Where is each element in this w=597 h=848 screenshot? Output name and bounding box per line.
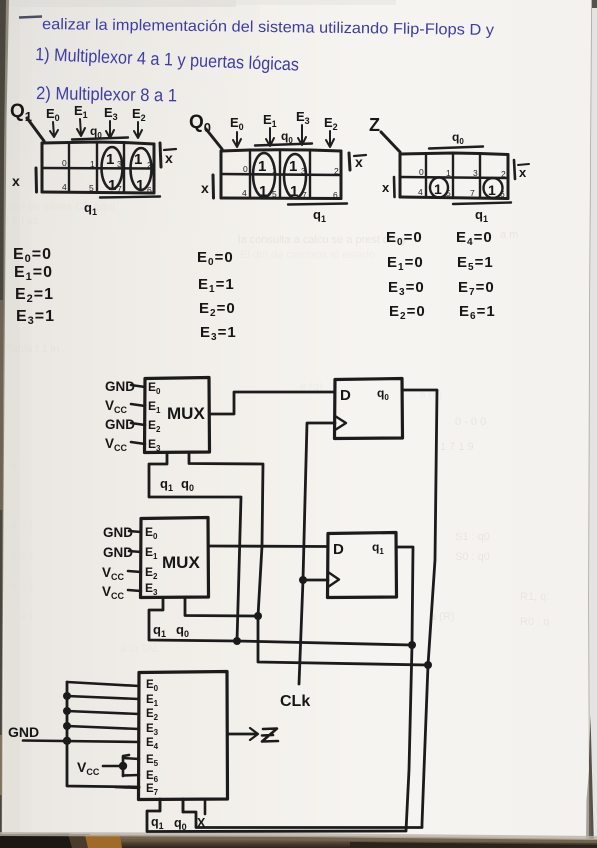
- wire E5 stub: [123, 758, 139, 759]
- E3 arrow: [104, 105, 118, 122]
- wire U2 output to FF2 D: [209, 545, 329, 548]
- svg-text:E2=1: E2=1: [15, 286, 54, 305]
- wire GND to U2.E1: [129, 551, 141, 552]
- svg-text:R0 : q: R0 : q: [520, 616, 549, 628]
- q1 bracket bottom: [100, 197, 160, 198]
- wire q0 horizontal to MUX selects: [189, 452, 428, 665]
- q0 bracket top: [452, 130, 464, 146]
- wire FF2 q1 output feedback: [147, 547, 413, 832]
- wire FF1 q0 output feedback (right vertical): [183, 390, 437, 828]
- wire U3 select q0 stub: [182, 800, 185, 813]
- q1 bracket bottom: [288, 204, 347, 205]
- arrowhead Z: [250, 728, 258, 740]
- E1 arrow: [263, 112, 277, 129]
- svg-text:7: 7: [470, 188, 475, 198]
- svg-text:E1=0: E1=0: [14, 264, 53, 283]
- svg-text:1: 1: [108, 177, 116, 194]
- GND label U2.E1: [103, 545, 133, 560]
- svg-text:x: x: [165, 150, 173, 166]
- svg-text:E2=0: E2=0: [199, 300, 236, 319]
- wire U3 select q1 stub: [159, 800, 162, 812]
- svg-text:4: 4: [418, 187, 423, 197]
- svg-text:GND: GND: [105, 417, 135, 432]
- svg-text:Tabla t 1 in: Tabla t 1 in: [6, 343, 59, 355]
- svg-text:E6=1: E6=1: [459, 303, 496, 322]
- wire U3 select X stub: [204, 800, 207, 815]
- mux U3 (8:1): [139, 672, 228, 800]
- Vcc label U2.E2: [102, 565, 125, 582]
- crossed-out R dash: [19, 17, 42, 18]
- E2 arrow: [132, 106, 146, 123]
- left dark photo edge: [0, 0, 9, 848]
- wire GND to U1.E2: [131, 423, 145, 425]
- svg-text:x: x: [519, 165, 527, 180]
- grouping oval cells 1-5: [253, 153, 275, 197]
- wire Vcc to U2.E2: [128, 571, 141, 572]
- grouping oval cells 3-7: [284, 154, 306, 198]
- svg-text:x: x: [201, 180, 209, 196]
- svg-text:GND: GND: [105, 379, 135, 394]
- flip-flop FF1: [335, 379, 403, 439]
- svg-text:E1=0: E1=0: [387, 254, 424, 273]
- svg-text:0: 0: [419, 167, 424, 177]
- wire Vcc to U1.E3: [131, 442, 145, 444]
- svg-text:E1=1: E1=1: [198, 276, 235, 295]
- svg-text:2: 2: [501, 169, 506, 179]
- mux U2 (4:1 bottom): [141, 518, 209, 598]
- q1 bracket bottom: [453, 203, 511, 205]
- svg-text:5: 5: [89, 183, 94, 193]
- junction bus E3: [63, 722, 71, 730]
- wire U1 output to FF1 D: [210, 392, 336, 414]
- wire Z leader: [381, 132, 400, 152]
- E0 arrow: [230, 115, 244, 132]
- svg-text:E2=0: E2=0: [389, 303, 426, 322]
- wire E6 stub: [123, 774, 139, 777]
- junction q1 net: [408, 641, 416, 649]
- Vcc label U1.E1: [105, 398, 128, 415]
- svg-text:4 9 1: 4 9 1: [10, 551, 34, 563]
- svg-text:x: x: [12, 173, 20, 189]
- x-bar label right: [514, 160, 515, 179]
- junction q1 select: [233, 637, 241, 645]
- cell numbers: [62, 158, 152, 195]
- left margin shadow band: [4, 0, 20, 838]
- svg-text:E3=1: E3=1: [200, 324, 237, 343]
- svg-text:E4=0: E4=0: [456, 229, 493, 248]
- svg-text:1: 1: [289, 158, 297, 175]
- cell numbers: [418, 167, 506, 199]
- node Z label: [369, 115, 380, 135]
- right paper edge line: [589, 0, 592, 848]
- grouping circle cell 6: [484, 178, 503, 198]
- svg-text:1: 1: [136, 177, 144, 194]
- svg-text:E3=1: E3=1: [16, 308, 55, 327]
- flip-flop FF2: [328, 533, 397, 598]
- K-map Z: [369, 115, 529, 224]
- junction Vcc tie: [119, 762, 127, 770]
- svg-text:a la TAL: a la TAL: [120, 643, 160, 655]
- wire Vcc to E5/E6 tie: [103, 765, 122, 768]
- svg-text:0: 0: [243, 164, 248, 174]
- ones in cells 1,5: [258, 158, 298, 200]
- svg-text:a m: a m: [500, 229, 518, 241]
- wire GND bus vertical: [67, 682, 139, 787]
- K-map Q1 grid: [42, 142, 154, 144]
- svg-text:2: 2: [334, 166, 339, 176]
- wire MUX2 S0 stub: [185, 597, 258, 616]
- E3 arrow: [296, 109, 310, 126]
- svg-text:E7=0: E7=0: [458, 279, 495, 298]
- grouping oval cells 3-7: [102, 147, 123, 189]
- E1 arrow: [74, 103, 88, 120]
- E0 arrow: [46, 106, 60, 123]
- svg-text:1: 1: [446, 168, 451, 178]
- svg-text:X: X: [197, 816, 206, 830]
- junction bus E4/GND: [63, 737, 71, 745]
- svg-text:4 9: 4 9: [10, 461, 25, 473]
- svg-text:1 9 1: 1 9 1: [10, 611, 34, 623]
- svg-text:a (R): a (R): [430, 611, 454, 623]
- wire clock bus: [299, 423, 335, 684]
- svg-text:3: 3: [473, 168, 478, 178]
- svg-text:D: D: [333, 541, 344, 558]
- bottom table strip below paper edge: [0, 836, 597, 848]
- svg-text:T04 de sintes CD aqui: T04 de sintes CD aqui: [6, 201, 115, 213]
- x-bar label right: [160, 143, 161, 167]
- svg-text:GND: GND: [103, 525, 133, 540]
- svg-text:E5=1: E5=1: [457, 254, 494, 273]
- wire Vcc to U1.E1: [131, 404, 145, 406]
- wire Vcc to U2.E3: [128, 590, 141, 591]
- mux U1 (4:1 top): [145, 378, 210, 454]
- svg-text:El dm de cambios el estad: El dm de cambios el estado: [240, 249, 375, 261]
- svg-text:4 9 1: 4 9 1: [10, 581, 34, 593]
- x label left: [382, 180, 390, 195]
- x label left: [12, 173, 20, 189]
- svg-text:0 - 0 0: 0 - 0 0: [455, 416, 486, 428]
- faint bleed-through ghosts: [6, 201, 549, 655]
- svg-text:1: 1: [90, 159, 95, 169]
- q0 bracket top: [90, 124, 102, 140]
- svg-text:t q i sa: t q i sa: [6, 215, 39, 227]
- Vcc label U1.E3: [105, 436, 128, 453]
- svg-text:GND: GND: [8, 724, 39, 740]
- junction bus E1: [63, 692, 71, 700]
- wire E1 stub: [67, 696, 139, 699]
- wire MUX2 S1 bracket and q1 horizontal: [149, 598, 412, 646]
- wire Q1 leader: [27, 118, 44, 141]
- wire E5/E6 tie bracket: [123, 755, 129, 776]
- node Z output label: [262, 729, 278, 742]
- junction q0 select MUX2: [254, 612, 262, 620]
- svg-text:6: 6: [333, 190, 338, 200]
- svg-text:CLk: CLk: [280, 693, 310, 710]
- K-map Q1: [10, 101, 176, 217]
- grouping circle cell 5: [430, 178, 448, 198]
- svg-text:4 9 1: 4 9 1: [10, 521, 34, 533]
- svg-text:2) Multiplexor 8 a 1: 2) Multiplexor 8 a 1: [36, 83, 177, 105]
- select labels U1: [160, 476, 194, 493]
- svg-text:S1 : q0: S1 : q0: [455, 531, 490, 543]
- svg-text:4: 4: [242, 188, 247, 198]
- wire Q0 leader: [206, 129, 222, 149]
- junction bus E2: [63, 707, 71, 715]
- svg-text:1: 1: [488, 182, 496, 198]
- wire GND to U1.E0: [131, 385, 145, 387]
- GND label U2.E0: [103, 525, 133, 540]
- svg-text:E0=0: E0=0: [386, 229, 423, 248]
- svg-text:0: 0: [62, 158, 67, 168]
- cell numbers: [242, 164, 339, 200]
- Vcc label U3: [77, 759, 100, 777]
- K-map Q0 grid: [221, 150, 341, 151]
- svg-text:R1, q:: R1, q:: [520, 591, 549, 603]
- wire GND + E4 stub: [23, 741, 139, 743]
- x-bar label right: [349, 153, 350, 170]
- FF2 clock triangle: [328, 572, 339, 587]
- Vcc label U2.E3: [102, 584, 125, 601]
- junction q0 net: [424, 661, 432, 669]
- ones in cells 3,7: [106, 151, 144, 194]
- node CLK label: [280, 693, 310, 710]
- K-map Z grid: [400, 153, 508, 155]
- K-map Q0: [189, 109, 366, 224]
- wire E2 stub: [67, 711, 139, 714]
- svg-text:E3=0: E3=0: [388, 279, 425, 298]
- svg-text:MUX: MUX: [167, 404, 205, 423]
- GND label U1.E2: [105, 417, 135, 432]
- junction clock to FF2: [299, 576, 307, 584]
- E2 arrow: [324, 115, 338, 132]
- svg-text:x: x: [382, 180, 390, 195]
- svg-text:4: 4: [62, 182, 67, 192]
- wire E0 stub: [67, 682, 139, 686]
- x label left: [201, 180, 209, 196]
- wire MUX1 S1 feed: [149, 453, 241, 642]
- svg-text:E0=0: E0=0: [13, 246, 52, 265]
- svg-text:GND: GND: [103, 545, 133, 560]
- svg-text:1: 1: [258, 158, 266, 175]
- top edge sliver: [6, 0, 236, 7]
- svg-text:E0=0: E0=0: [197, 249, 234, 268]
- paper bottom soft shadow: [0, 832, 597, 840]
- one in cell 5: [434, 181, 496, 198]
- GND label U3: [8, 724, 39, 740]
- select labels U2: [153, 622, 189, 639]
- node Q1 label: [10, 101, 32, 124]
- FF1 clock triangle: [335, 416, 346, 430]
- wire clock branch to FF2: [303, 579, 328, 582]
- svg-text:MUX: MUX: [162, 553, 200, 572]
- GND label U1.E0: [105, 379, 135, 394]
- wire E3 stub: [67, 726, 139, 729]
- select labels U3: [151, 815, 206, 832]
- svg-text:1: 1: [106, 151, 114, 168]
- svg-text:Z: Z: [369, 115, 380, 135]
- wire GND to U2.E0: [129, 531, 141, 532]
- q0 bracket top: [281, 129, 293, 145]
- svg-text:S0 : q0: S0 : q0: [455, 551, 490, 563]
- grouping oval cells 2-6: [131, 148, 152, 190]
- svg-text:D: D: [340, 387, 351, 404]
- wire E7 stub (to GND return): [115, 787, 139, 788]
- svg-text:1 7 1 9: 1 7 1 9: [440, 441, 474, 453]
- svg-text:1: 1: [434, 181, 442, 197]
- wire U3 output Z: [228, 733, 258, 736]
- svg-text:la consulta a calcu se a pre: la consulta a calcu se a prest dm y: [238, 234, 407, 246]
- node Q0 label: [189, 112, 211, 135]
